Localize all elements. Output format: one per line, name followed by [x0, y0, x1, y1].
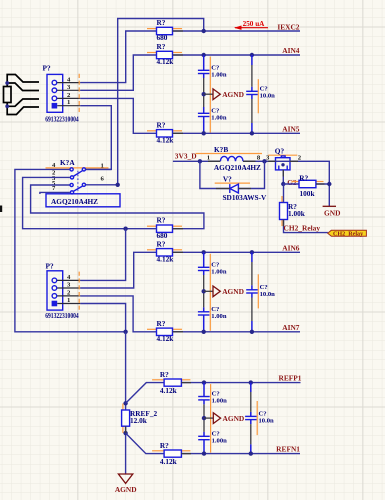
wire Q gate down	[282, 170, 284, 184]
wire diagonal to REFN1	[126, 433, 165, 454]
svg-text:4.12k: 4.12k	[157, 57, 175, 66]
svg-text:G2: G2	[287, 178, 297, 187]
svg-text:C?: C?	[260, 86, 268, 93]
connector P? (top) pin 2	[57, 97, 81, 99]
wire AIN7	[173, 331, 301, 333]
svg-text:R?: R?	[157, 239, 166, 248]
wire Q pin2 to GND	[276, 161, 330, 206]
wire P2 pin1 down	[80, 304, 125, 332]
ground AGND (bottom)	[115, 474, 137, 494]
cable W1 junction bottom	[5, 104, 9, 108]
svg-text:R?: R?	[299, 174, 308, 183]
svg-text:AIN5: AIN5	[282, 125, 300, 134]
capacitor C? 1.00n (block1 top)	[198, 65, 227, 79]
svg-text:R?: R?	[157, 216, 166, 225]
svg-text:1: 1	[67, 99, 70, 106]
junction AIN6 cap stack	[202, 250, 206, 254]
resistor R? 4.12k (AIN5)	[147, 120, 182, 144]
svg-text:AIN7: AIN7	[282, 323, 300, 332]
capacitor C? 10.0n (block3)	[245, 411, 274, 425]
resistor R? 4.12k (AIN4)	[147, 42, 182, 66]
junction AIN7 10n	[250, 330, 254, 334]
10n cap 2 pin mark	[257, 274, 259, 308]
svg-text:R?: R?	[157, 319, 166, 328]
svg-text:R?: R?	[157, 18, 166, 27]
junction K?A pin6	[116, 183, 120, 187]
svg-text:K?B: K?B	[214, 145, 228, 154]
connector P? (top) body	[47, 74, 63, 112]
capacitor C? 1.00n (block1 bottom)	[198, 108, 227, 122]
junction 3V3_D	[198, 159, 202, 163]
svg-text:4.12k: 4.12k	[157, 136, 175, 145]
cable W1 wire 4	[7, 103, 39, 115]
wire IEXC2	[173, 30, 301, 32]
connector P? (top) pin 3	[57, 89, 81, 91]
svg-text:1: 1	[67, 297, 70, 304]
capacitor C? 1.00n (block2 bottom)	[198, 306, 227, 320]
svg-text:1.00n: 1.00n	[211, 71, 227, 78]
cap stack 3 pin mark	[210, 384, 212, 453]
wire AIN6	[173, 251, 301, 253]
junction R100k right	[327, 182, 331, 186]
svg-text:680: 680	[157, 33, 168, 42]
ground AGND (block2)	[202, 286, 244, 297]
junction REFN diag	[123, 431, 127, 435]
wire P2 pin2 to AIN7	[80, 296, 156, 332]
svg-text:1: 1	[101, 162, 104, 169]
wire P2 pin3 to AIN6	[80, 252, 156, 288]
svg-text:CH2_Relay: CH2_Relay	[333, 231, 363, 237]
junction REFN1 cap stack	[202, 451, 206, 455]
wire cap stack 2	[203, 252, 205, 331]
junction REFP1 10n	[249, 380, 253, 384]
cable W1 wire 3	[7, 99, 39, 106]
svg-text:IEXC2: IEXC2	[277, 22, 299, 31]
junction REFP1 cap stack	[202, 380, 206, 384]
junction IEXC2	[202, 29, 206, 33]
pin stub REFN1	[181, 453, 191, 455]
wire K?A pin6 stub	[86, 184, 118, 186]
connector P? (top) pin 4	[57, 82, 81, 84]
wire REFN1	[181, 453, 300, 455]
wire AIN5	[173, 132, 301, 134]
junction AIN5 cap stack	[202, 131, 206, 135]
svg-text:10.0n: 10.0n	[259, 418, 275, 425]
svg-text:AGQ210A4HZ: AGQ210A4HZ	[214, 163, 261, 172]
svg-text:1.00n: 1.00n	[212, 398, 228, 405]
svg-text:K?A: K?A	[60, 158, 75, 167]
junction REFN1 10n	[249, 451, 253, 455]
junction AIN7 left	[123, 330, 127, 334]
cap stack 1 pin mark	[209, 57, 211, 133]
svg-text:REFP1: REFP1	[279, 373, 302, 382]
junction AIN7 cap stack	[202, 330, 206, 334]
connector P? (bottom) pin 1	[57, 303, 80, 305]
pin stubs dark	[126, 31, 325, 433]
cable W1 junction top	[5, 81, 9, 85]
junction REFP diag	[123, 401, 127, 405]
capacitor C? 1.00n (block3 top)	[198, 391, 227, 405]
svg-text:AGQ210A4HZ: AGQ210A4HZ	[51, 197, 98, 206]
annotation 250 uA arrow	[234, 20, 268, 30]
svg-text:V?: V?	[223, 175, 232, 184]
connector P? (bottom) pin 4	[57, 279, 81, 281]
connector P? (bottom) pin 2	[57, 295, 81, 297]
svg-text:R?: R?	[160, 441, 169, 450]
svg-text:AIN6: AIN6	[282, 243, 300, 252]
wire R680-2 left	[126, 228, 157, 230]
wire G2 to R100k	[283, 183, 329, 185]
black margin artifact	[0, 206, 2, 213]
wire cap stack 1	[203, 55, 205, 133]
wire R1k to CH2_Relay	[284, 184, 328, 233]
wire K?A pin1 stub	[86, 168, 111, 170]
capacitor C? 1.00n (block3 bottom)	[198, 431, 227, 445]
connector P? (bottom) pin 3	[57, 287, 81, 289]
transistor Q?	[266, 146, 302, 170]
cable symbol W1 body	[4, 87, 12, 103]
10n cap 3 pin mark	[256, 401, 258, 435]
relay K?A part box AGQ210A4HZ	[46, 194, 120, 207]
svg-text:1.00n: 1.00n	[211, 268, 227, 275]
svg-text:AIN4: AIN4	[282, 46, 300, 55]
svg-text:1.00n: 1.00n	[211, 313, 227, 320]
cap stack 2 pin mark	[209, 254, 211, 331]
wire 10n cap 3	[250, 383, 252, 454]
connector P? (top) pin 1	[57, 105, 80, 107]
svg-text:SD103AWS-V: SD103AWS-V	[223, 193, 268, 202]
resistor R? 1.00k	[280, 196, 306, 226]
junction coil pin8	[262, 159, 266, 163]
wire K?A pin7 stub	[40, 192, 70, 194]
svg-text:R?: R?	[160, 370, 169, 379]
diode V? SD103AWS-V	[215, 175, 267, 202]
svg-text:691322310004: 691322310004	[45, 311, 79, 320]
wire AIN4	[173, 54, 301, 56]
svg-text:10.0n: 10.0n	[260, 291, 276, 298]
junction AIN4 10n	[250, 53, 254, 57]
connector P? (bottom) body	[47, 271, 63, 310]
wire K?A pin3 loop to R680 row2 right	[31, 185, 204, 229]
svg-text:AGND: AGND	[222, 287, 244, 296]
svg-text:250 uA: 250 uA	[243, 20, 266, 28]
svg-text:C?: C?	[260, 284, 268, 291]
wire K?A pin6 to IEXC2	[118, 19, 204, 185]
svg-text:R?: R?	[157, 42, 166, 51]
connector P? (bottom) selection dash	[78, 272, 80, 312]
svg-text:1: 1	[207, 154, 210, 161]
wire REF feeder vertical	[125, 332, 127, 474]
wire 10n cap 1	[251, 55, 253, 133]
svg-text:10.0n: 10.0n	[260, 93, 276, 100]
svg-text:1.00n: 1.00n	[212, 437, 228, 444]
junction G2	[281, 182, 285, 186]
resistor RREF_2 12.0k	[122, 404, 158, 433]
wire P1 pin1 to K?A pin1	[80, 106, 111, 170]
junction AIN5 10n	[250, 131, 254, 135]
resistor R? 4.12k (REFP1)	[152, 370, 190, 395]
wire flyback branch	[200, 161, 265, 188]
svg-text:REFN1: REFN1	[276, 444, 300, 453]
svg-text:P?: P?	[43, 64, 51, 73]
svg-text:4.12k: 4.12k	[157, 334, 175, 343]
relay coil K?B	[196, 145, 263, 172]
capacitor C? 10.0n (block1)	[246, 86, 275, 100]
wire 3V3_D node	[173, 160, 220, 162]
svg-text:AGND: AGND	[115, 485, 137, 494]
ground AGND (block1)	[202, 89, 244, 100]
wire 10n cap 2	[251, 252, 253, 331]
svg-text:691322310004: 691322310004	[45, 114, 79, 123]
svg-text:100k: 100k	[300, 189, 316, 198]
svg-text:4.12k: 4.12k	[160, 386, 178, 395]
svg-text:C?: C?	[259, 411, 267, 418]
svg-text:CH2_Relay: CH2_Relay	[284, 224, 321, 233]
pin stub REFP1	[181, 382, 191, 384]
wire P1 pin4 to R680	[80, 31, 156, 83]
junction AIN6 10n	[250, 250, 254, 254]
svg-text:1.00k: 1.00k	[288, 209, 306, 218]
svg-text:P?: P?	[46, 262, 54, 271]
capacitor C? 10.0n (block2)	[246, 284, 275, 298]
port CH2_Relay	[328, 230, 367, 237]
svg-text:4.12k: 4.12k	[160, 457, 178, 466]
svg-text:3V3_D: 3V3_D	[175, 151, 197, 160]
wire P1 pin2 to AIN5	[80, 98, 156, 133]
wire P1 pin3 to AIN4	[80, 55, 156, 90]
wire cap stack 3	[203, 383, 205, 454]
svg-text:AGND: AGND	[222, 90, 244, 99]
svg-text:1.00n: 1.00n	[211, 114, 227, 121]
resistor R? 4.12k (AIN6)	[147, 239, 182, 263]
ground AGND (block3)	[202, 413, 244, 424]
10n cap 1 pin mark	[257, 79, 259, 113]
junction AIN4 cap stack	[202, 53, 206, 57]
cable W1 wire 1	[7, 75, 39, 87]
svg-text:AGND: AGND	[223, 414, 245, 423]
connector P? (top) selection dash	[78, 74, 80, 114]
resistor R? 680 (top)	[147, 18, 182, 42]
svg-text:4.12k: 4.12k	[157, 255, 175, 264]
resistor R? 4.12k (REFN1)	[152, 441, 190, 466]
svg-text:R?: R?	[157, 120, 166, 129]
svg-text:12.0k: 12.0k	[130, 416, 148, 425]
cable W1 wire 2	[7, 83, 39, 91]
ground GND	[323, 206, 341, 217]
svg-text:Q?: Q?	[275, 146, 285, 155]
relay contacts K?A	[46, 158, 109, 194]
capacitor C? 1.00n (block2 top)	[198, 262, 227, 276]
resistor R? 4.12k (AIN7)	[147, 319, 182, 343]
wire diagonal to REFP1	[126, 383, 165, 404]
resistor R? 680 (block2)	[147, 216, 182, 240]
wire REFP1	[181, 382, 300, 384]
wire K?A pin2 to R680 row2	[23, 177, 126, 228]
wire coil pin8 to Q pin3	[243, 160, 276, 162]
junction R680-2 left	[123, 227, 127, 231]
wire K?A pin4 to AIN7	[15, 169, 126, 331]
svg-text:GND: GND	[324, 208, 340, 217]
wire P2 pin4 up	[80, 229, 125, 281]
resistor R? 100k	[292, 174, 324, 198]
